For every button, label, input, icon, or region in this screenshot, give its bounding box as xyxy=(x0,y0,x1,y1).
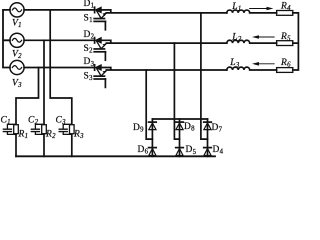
svg-text:V1: V1 xyxy=(12,19,22,30)
svg-text:D9: D9 xyxy=(133,123,144,134)
svg-text:R5: R5 xyxy=(280,32,291,43)
svg-text:S1: S1 xyxy=(84,14,93,25)
svg-text:D7: D7 xyxy=(212,123,223,134)
svg-text:D8: D8 xyxy=(184,122,195,133)
svg-text:S3: S3 xyxy=(84,71,94,82)
svg-text:D4: D4 xyxy=(213,145,224,156)
svg-text:R1: R1 xyxy=(18,129,29,140)
svg-text:S2: S2 xyxy=(84,44,94,55)
svg-text:L2: L2 xyxy=(231,33,242,44)
svg-text:C1: C1 xyxy=(1,115,11,126)
svg-text:V3: V3 xyxy=(12,79,22,90)
svg-text:R4: R4 xyxy=(280,2,291,13)
svg-text:D1: D1 xyxy=(84,0,95,10)
svg-text:C3: C3 xyxy=(56,115,67,126)
svg-text:C2: C2 xyxy=(28,115,39,126)
svg-text:V2: V2 xyxy=(12,50,22,61)
svg-text:D2: D2 xyxy=(84,30,95,41)
svg-text:R2: R2 xyxy=(45,129,56,140)
svg-text:L1: L1 xyxy=(231,2,241,13)
svg-text:L3: L3 xyxy=(229,58,240,69)
svg-text:R6: R6 xyxy=(280,58,291,69)
svg-text:R3: R3 xyxy=(73,129,84,140)
svg-text:D6: D6 xyxy=(138,145,149,156)
svg-text:D5: D5 xyxy=(186,145,197,156)
svg-text:D3: D3 xyxy=(84,57,95,68)
